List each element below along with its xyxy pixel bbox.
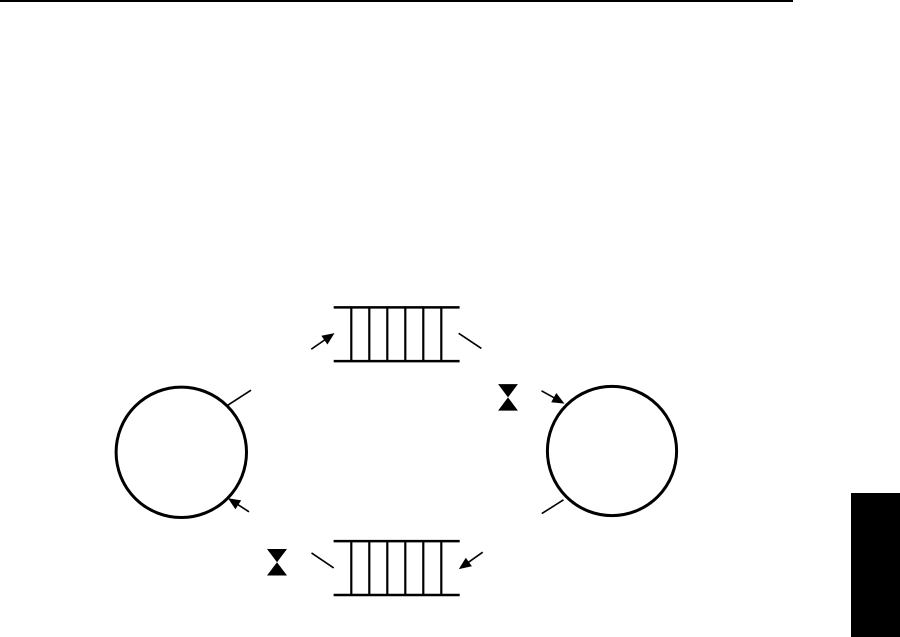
hourglass (left) <box>267 549 287 576</box>
hourglass (right) <box>498 384 518 411</box>
link line: top ladder out (to bottom-right) <box>459 333 482 348</box>
bottom ladder <box>334 541 460 595</box>
page tab (solid black block, bottom right edge) <box>851 493 900 637</box>
right circle <box>547 386 676 515</box>
arrow into bottom ladder <box>459 552 483 569</box>
arrow into top ladder <box>311 333 334 349</box>
link line: left circle out (to top-right) <box>228 390 251 405</box>
top ladder <box>334 307 460 361</box>
link line: bottom ladder out (to top-left) <box>312 553 334 568</box>
left circle <box>116 387 246 517</box>
arrow into right circle <box>542 391 565 404</box>
top rule <box>0 0 793 2</box>
link line: right circle out (to bottom-left) <box>542 500 564 514</box>
arrow into left circle <box>228 498 249 512</box>
